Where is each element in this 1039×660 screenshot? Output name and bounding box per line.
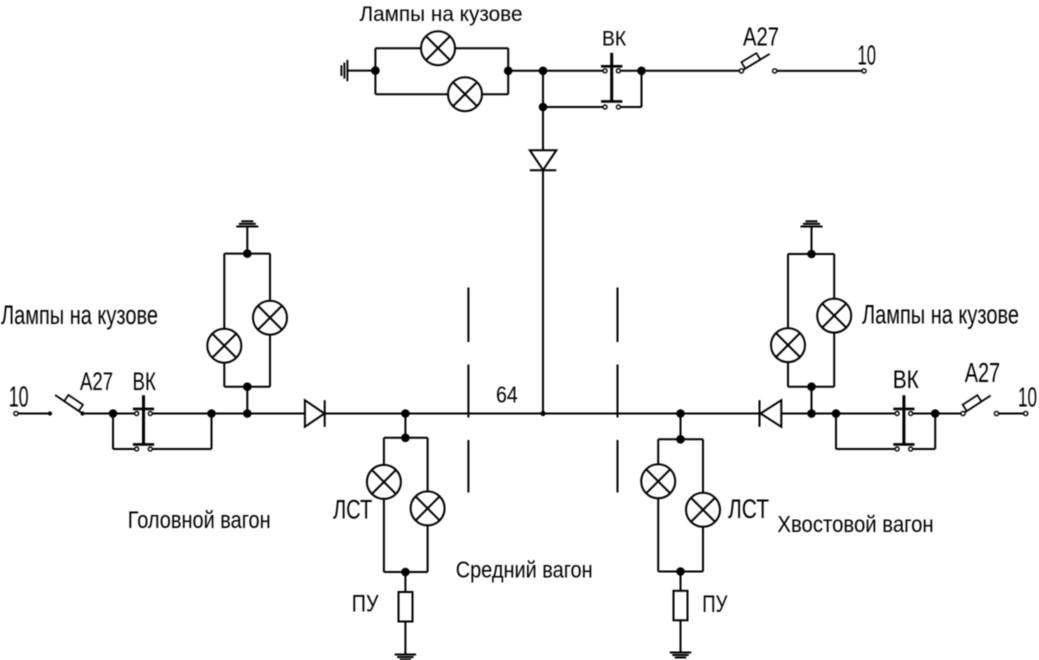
wire ground to node K1 — [811, 227, 813, 255]
wire ground to node H1 — [246, 227, 248, 254]
wire: right ЛСТ loop top rail — [658, 438, 703, 440]
lamp HL2 (bottom rail) — [448, 77, 482, 111]
wire: bypass riser to L2 — [211, 414, 213, 450]
label "Лампы на кузове" (right) — [862, 300, 1019, 329]
svg-text:ПУ: ПУ — [352, 590, 380, 617]
svg-text:ЛСТ: ЛСТ — [333, 496, 372, 525]
lamp HL3 (left rail) — [207, 329, 241, 363]
wire: bypass bottom right segment (left ВК) — [152, 448, 211, 450]
wire: bypass bottom left segment — [543, 106, 603, 108]
separator dash line (right), segment 2 — [617, 365, 619, 418]
wire: top lamp loop top rail — [375, 47, 508, 49]
label ВК (top) — [602, 26, 626, 50]
switch ВК (right) — [893, 395, 914, 451]
label ЛСТ (left) — [333, 496, 372, 525]
node R3 junction — [807, 409, 816, 418]
node L3 junction — [243, 409, 252, 418]
wire T4 to breaker А27 (top) — [642, 70, 740, 72]
wire K2 to node R3 — [811, 387, 813, 414]
wire: tail-car loop right rail — [833, 254, 835, 387]
node T4 junction — [637, 67, 646, 76]
diode VD1 (cathode down) — [530, 150, 557, 170]
svg-text:10: 10 — [1018, 381, 1037, 412]
wire: bypass bottom left segment (left ВК) — [113, 448, 135, 450]
wire L4 down to node S1 — [404, 414, 406, 438]
label "Лампы на кузове" (left) — [1, 300, 158, 329]
wire R4 to diode VD3 — [681, 413, 760, 415]
node H2 junction — [243, 382, 252, 391]
node H1 junction — [243, 249, 252, 258]
svg-text:А27: А27 — [80, 367, 113, 395]
contact dot left of А27 gap — [48, 411, 52, 415]
resistor ПУ (left) — [399, 592, 413, 622]
separator dash line (left), segment 3 — [467, 440, 469, 493]
ground (earth) below left ПУ — [395, 655, 416, 660]
wire: diode VD1 to bus node C — [542, 170, 544, 413]
node S3 junction — [676, 435, 685, 444]
lamp ЛСТ EL1 (left rail) — [367, 465, 401, 499]
svg-text:Головной вагон: Головной вагон — [128, 506, 271, 533]
lamp HL6 (right rail) — [817, 299, 851, 333]
wire: top lamp loop bottom rail — [375, 93, 508, 95]
svg-text:Лампы на кузове: Лампы на кузове — [862, 300, 1019, 329]
terminal 10 circle (right) — [1024, 411, 1028, 415]
svg-text:64: 64 — [496, 382, 518, 408]
wire: right ЛСТ loop left rail — [657, 439, 659, 571]
svg-text:А27: А27 — [743, 22, 779, 51]
lamp ЛСТ EL2 (right rail) — [411, 491, 445, 525]
node S2 junction — [401, 568, 410, 577]
wire: top lamp loop right rail — [507, 48, 509, 94]
wire ground to node T1 — [347, 70, 375, 72]
wire VD2 to node L4 — [325, 413, 406, 415]
wire: left ЛСТ loop right rail — [427, 438, 429, 572]
wire VD3 to node R3 — [781, 413, 811, 415]
switch ВК (left) — [133, 395, 154, 451]
wire: head-car loop bottom rail — [224, 386, 270, 388]
wire R4 down to node S3 — [680, 414, 682, 440]
label 10 (right) — [1018, 381, 1037, 412]
wire: head-car loop right rail — [269, 254, 271, 387]
label "Головной вагон" — [128, 506, 271, 533]
wire: bypass drop from R2 — [835, 414, 837, 450]
svg-text:ВК: ВК — [602, 26, 626, 50]
wire: left ЛСТ loop bottom rail — [384, 571, 428, 573]
wire node C to node R4 — [543, 413, 681, 415]
wire R3 to node R2 — [812, 413, 837, 415]
ground (earth) above right lamp group — [801, 221, 823, 226]
wire L4 to node C (net 64) — [405, 413, 543, 415]
wire: right ЛСТ loop bottom rail — [658, 571, 703, 573]
wire L3 to diode VD2 — [247, 413, 305, 415]
svg-text:ВК: ВК — [133, 367, 157, 395]
svg-text:10: 10 — [9, 381, 29, 413]
wire: bypass riser to R1 — [934, 414, 936, 450]
separator dash line (right), segment 1 — [617, 288, 619, 343]
node L2 junction — [207, 409, 216, 418]
svg-text:ПУ: ПУ — [702, 591, 727, 618]
label ВК (right) — [893, 365, 920, 393]
label А27 (right) — [965, 358, 1000, 389]
resistor ПУ (right) — [674, 591, 688, 621]
node T2 junction — [504, 67, 513, 76]
circuit breaker А27 (right) — [961, 389, 991, 415]
lamp ЛСТ EL3 (left rail) — [641, 464, 675, 498]
wire: bypass drop from L1 — [112, 414, 114, 450]
wire L1 to ВК (left) — [113, 413, 135, 415]
ground (chassis) left of top lamp group — [341, 60, 347, 81]
wire: bypass bottom right segment — [621, 106, 642, 108]
node R4 junction — [676, 409, 685, 418]
wire terminal 10 to А27 gap (left) — [18, 413, 48, 415]
wire: center drop T5 to diode VD1 — [542, 107, 544, 150]
svg-text:Лампы на кузове: Лампы на кузове — [360, 2, 523, 25]
terminal 10 circle (left) — [14, 411, 18, 415]
wire S2 to resistor ПУ (left) — [404, 572, 406, 592]
wire: bypass bottom left segment (right ВК) — [836, 448, 895, 450]
circuit breaker А27 (left) — [55, 389, 85, 416]
wire T2 to T3 — [508, 70, 543, 72]
wire T3 to switch ВК top-left contact — [543, 70, 603, 72]
svg-text:10: 10 — [858, 39, 877, 70]
label ЛСТ (right) — [728, 495, 769, 525]
lamp HL4 (right rail) — [253, 301, 287, 335]
switch ВК (top) — [601, 53, 622, 109]
wire resistor ПУ to ground (left) — [404, 622, 406, 655]
terminal contact after А27 gap (top) — [773, 69, 777, 73]
svg-text:ЛСТ: ЛСТ — [728, 495, 769, 525]
node K2 junction — [807, 382, 816, 391]
svg-text:А27: А27 — [965, 358, 1000, 389]
wire R2 to ВК (right) — [836, 413, 895, 415]
label А27 (top) — [743, 22, 779, 51]
svg-text:Лампы на кузове: Лампы на кузове — [1, 300, 158, 329]
node T1 junction — [371, 66, 380, 75]
node T5 junction — [539, 103, 548, 112]
label ВК (left) — [133, 367, 157, 395]
wire: right ЛСТ loop right rail — [702, 439, 704, 571]
wire А27 to node L1 — [85, 413, 110, 415]
terminal 10 circle (top) — [862, 69, 866, 73]
wire: head-car loop top rail — [224, 253, 270, 255]
label ПУ (right) — [702, 591, 727, 618]
node K1 junction — [807, 250, 816, 259]
separator dash line (left), segment 2 — [467, 365, 469, 418]
label ПУ (left) — [352, 590, 380, 617]
wire R1 to А27 (right) — [935, 413, 961, 415]
wire: tail-car loop bottom rail — [788, 386, 834, 388]
svg-text:Средний вагон: Средний вагон — [456, 556, 593, 583]
wire: head-car loop left rail — [223, 254, 225, 387]
lamp HL5 (left rail) — [771, 328, 805, 362]
svg-text:Хвостовой вагон: Хвостовой вагон — [777, 510, 933, 537]
wire: left ЛСТ loop top rail — [384, 437, 428, 439]
label "Средний вагон" — [456, 556, 593, 583]
wire: tail-car loop top rail — [788, 253, 834, 255]
wire: top lamp loop left rail — [374, 48, 376, 94]
wire: bypass bottom right segment (right ВК) — [913, 448, 936, 450]
circuit breaker А27 (top) — [739, 47, 769, 73]
separator dash line (left), segment 1 — [467, 288, 469, 343]
label "Хвостовой вагон" — [777, 510, 933, 537]
node T3 junction — [539, 67, 548, 76]
label 10 (top) — [858, 39, 877, 70]
wire resistor ПУ to ground (right) — [680, 620, 682, 652]
wire ВК to node L2 — [152, 413, 211, 415]
wire ВК to node T4 — [621, 70, 642, 72]
label 10 (left) — [9, 381, 29, 413]
wire: left ЛСТ loop left rail — [383, 438, 385, 572]
lamp ЛСТ EL4 (right rail) — [686, 493, 720, 527]
label net 64 — [496, 382, 518, 408]
wire А27 to terminal 10 (top) — [777, 70, 862, 72]
separator dash line (right), segment 3 — [617, 440, 619, 493]
svg-text:ВК: ВК — [893, 365, 920, 393]
wire H2 to node L3 — [246, 387, 248, 414]
terminal contact after А27 gap (right) — [994, 411, 998, 415]
ground (earth) above left lamp group — [236, 221, 258, 226]
lamp HL1 (top rail) — [421, 31, 455, 65]
ground (earth) below right ПУ — [670, 653, 691, 658]
node C dot on bus — [540, 411, 545, 416]
node S4 junction — [676, 567, 685, 576]
diode VD2 (cathode right) — [305, 400, 325, 427]
node R2 junction — [832, 409, 841, 418]
node R1 junction — [931, 409, 940, 418]
node S1 junction — [401, 434, 410, 443]
node L4 junction — [401, 409, 410, 418]
wire to terminal 10 (right) — [999, 413, 1024, 415]
diode VD3 (cathode left) — [760, 400, 782, 427]
wire: bypass riser to T4 — [641, 71, 643, 107]
wire L2 to node L3 — [212, 413, 248, 415]
label "Лампы на кузове" (top) — [360, 2, 523, 25]
label А27 (left) — [80, 367, 113, 395]
wire: bypass drop from T3 — [542, 71, 544, 107]
wire S4 to resistor ПУ (right) — [680, 572, 682, 591]
wire ВК to node R1 — [913, 413, 936, 415]
node L1 junction — [109, 409, 118, 418]
wire: tail-car loop left rail — [787, 254, 789, 387]
